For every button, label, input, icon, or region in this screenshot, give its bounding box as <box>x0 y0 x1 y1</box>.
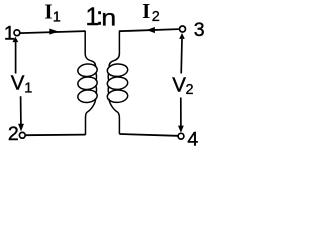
coil L1 crossover 2-3 <box>95 86 98 94</box>
current arrow I1 <box>49 29 59 35</box>
svg-text:1: 1 <box>53 10 61 26</box>
secondary coil L2 (right winding) <box>107 31 128 134</box>
terminal circle 3 <box>180 26 186 32</box>
coil L2 bottom stem <box>109 99 119 134</box>
voltage V2 lower arrow (points to terminal 4) <box>178 98 184 133</box>
coil L1 crossover 1-2 <box>95 73 98 81</box>
coil L1 loop 1 <box>77 63 98 77</box>
svg-text:2: 2 <box>186 82 194 98</box>
coil L1 loop 3 <box>77 89 98 103</box>
wire bottom-left from terminal 2 to primary coil <box>26 134 86 137</box>
coil L2 top stem <box>109 31 119 67</box>
primary coil L1 (left winding) <box>77 31 98 135</box>
svg-text:V: V <box>11 72 25 95</box>
svg-text:2: 2 <box>152 9 160 25</box>
svg-text:n: n <box>101 5 116 31</box>
wire top-right from secondary coil to terminal 3 <box>119 29 179 31</box>
wire top-left from terminal 1 to primary coil <box>20 31 85 33</box>
coil L2 crossover 2-3 <box>107 86 110 94</box>
svg-text:4: 4 <box>187 128 198 150</box>
svg-text:V: V <box>172 74 186 97</box>
wire bottom-right from secondary coil to terminal 4 <box>119 134 177 136</box>
coil L2 loop 1 <box>107 63 128 77</box>
voltage V1 upper arrow (points to terminal 1) <box>12 37 18 74</box>
terminal circle 1 <box>14 30 20 36</box>
terminal circle 4 <box>178 133 184 139</box>
terminal circle 2 <box>19 132 25 138</box>
coil L1 loop 2 <box>77 76 98 90</box>
coil L2 loop 2 <box>107 76 128 90</box>
current arrow I2 <box>147 27 155 33</box>
coil L1 top stem <box>85 31 95 68</box>
svg-text:2: 2 <box>8 123 19 145</box>
voltage V1 lower arrow (points to terminal 2) <box>18 96 24 131</box>
coil L2 crossover 1-2 <box>107 73 110 81</box>
svg-text:3: 3 <box>194 19 205 41</box>
coil L1 bottom stem <box>86 99 96 135</box>
svg-text:I: I <box>142 0 150 23</box>
svg-text:I: I <box>44 0 52 23</box>
svg-text:1: 1 <box>24 81 32 97</box>
voltage V2 upper arrow (points to terminal 3) <box>179 33 185 74</box>
coil L2 loop 3 <box>107 89 128 103</box>
